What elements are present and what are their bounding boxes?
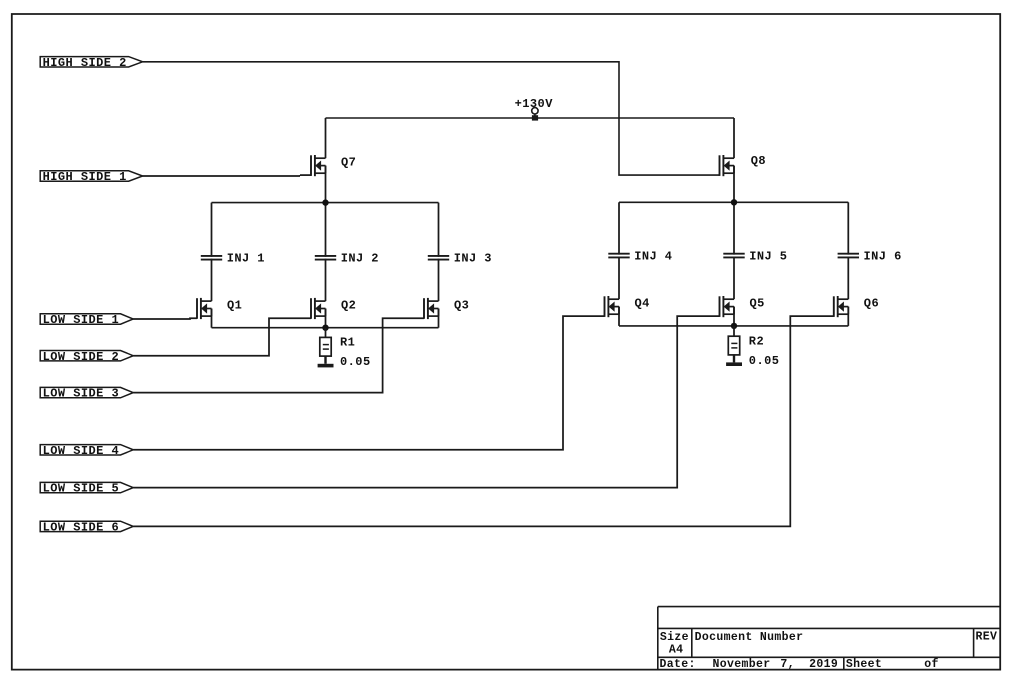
svg-text:Q6: Q6 (864, 296, 879, 310)
svg-text:0.05: 0.05 (340, 355, 371, 369)
svg-text:LOW_SIDE_4: LOW_SIDE_4 (43, 444, 120, 458)
svg-text:0.05: 0.05 (749, 354, 780, 368)
svg-text:REV: REV (976, 631, 998, 644)
svg-text:INJ 1: INJ 1 (227, 252, 265, 266)
svg-text:Q2: Q2 (341, 298, 356, 312)
svg-text:Document Number: Document Number (695, 631, 804, 644)
svg-text:Q8: Q8 (751, 154, 766, 168)
svg-text:LOW_SIDE_1: LOW_SIDE_1 (43, 313, 120, 327)
svg-text:Q7: Q7 (341, 155, 356, 169)
svg-text:LOW_SIDE_6: LOW_SIDE_6 (43, 521, 120, 535)
svg-text:+130V: +130V (515, 97, 554, 111)
svg-text:INJ 6: INJ 6 (864, 249, 902, 263)
svg-text:Sheet: Sheet (846, 658, 882, 671)
svg-text:LOW_SIDE_2: LOW_SIDE_2 (43, 350, 120, 364)
svg-text:R1: R1 (340, 335, 355, 349)
svg-text:INJ 3: INJ 3 (454, 252, 492, 266)
svg-text:Q5: Q5 (750, 296, 765, 310)
svg-text:Q3: Q3 (454, 298, 469, 312)
svg-text:7,: 7, (780, 658, 795, 671)
svg-text:HIGH_SIDE_2: HIGH_SIDE_2 (43, 56, 127, 70)
svg-text:November: November (713, 658, 771, 671)
svg-text:INJ 5: INJ 5 (749, 249, 787, 263)
svg-text:Size: Size (660, 631, 689, 644)
svg-text:of: of (924, 658, 939, 671)
svg-text:R2: R2 (749, 334, 764, 348)
svg-text:LOW_SIDE_3: LOW_SIDE_3 (43, 387, 120, 401)
svg-text:A4: A4 (669, 644, 684, 657)
svg-text:INJ 2: INJ 2 (341, 252, 379, 266)
svg-text:Date:: Date: (660, 658, 696, 671)
svg-text:2019: 2019 (809, 658, 838, 671)
svg-text:Q1: Q1 (227, 298, 242, 312)
svg-text:LOW_SIDE_5: LOW_SIDE_5 (43, 482, 120, 496)
svg-text:HIGH_SIDE_1: HIGH_SIDE_1 (43, 170, 127, 184)
svg-text:Q4: Q4 (635, 296, 650, 310)
svg-text:INJ 4: INJ 4 (634, 249, 672, 263)
